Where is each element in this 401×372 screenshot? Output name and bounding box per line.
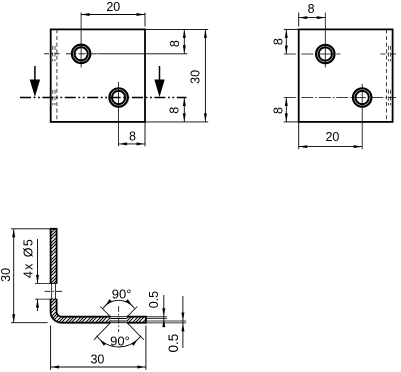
dim 20 bottom line [299, 146, 363, 148]
dim 30 left ext bottom [11, 322, 48, 324]
dim 0.5 upper ext a [146, 316, 167, 318]
svg-text:30: 30 [0, 268, 13, 282]
svg-text:8: 8 [129, 130, 136, 144]
hole gap mask horizontal leg [110, 316, 127, 324]
profile outline outer+bend [51, 299, 111, 323]
svg-text:30: 30 [90, 353, 104, 367]
vertical-leg hole wall right [55, 283, 57, 299]
dim 8 top-right arrow down [183, 45, 186, 54]
svg-text:0.5: 0.5 [147, 291, 161, 308]
dim 90 upper arrow right [126, 299, 133, 306]
csk ray lower-left [94, 323, 111, 340]
hole H4 inner circle [356, 91, 369, 104]
dim 30 bottom ext right [145, 326, 147, 370]
dim 0.5 lower ext a [146, 320, 186, 322]
dim 30 right arrow up [204, 29, 207, 38]
csk ray upper-right [127, 307, 137, 317]
hole H4 outer circle [353, 88, 371, 106]
dim 8 bottom ext right [144, 122, 146, 146]
horizontal-leg hole top surface line [110, 316, 127, 318]
left view hidden hole edge a [52, 46, 54, 61]
hole H2 inner circle [112, 91, 125, 104]
profile outline inner [57, 299, 111, 317]
dim 0.5 upper arrow up [162, 319, 165, 328]
section arrow right stem [159, 66, 161, 80]
left view hidden hole edge d [54, 90, 56, 105]
hole H1 vertical centerline [80, 13, 82, 68]
svg-text:90°: 90° [110, 334, 130, 349]
hole H3 inner circle [319, 47, 332, 60]
dim 90 lower arrow right [131, 339, 138, 346]
section arrow right head [154, 80, 164, 98]
hole H2 vertical centerline [118, 82, 120, 146]
dim 20 arrow left [81, 13, 90, 16]
vertical-leg hole top edge [35, 282, 57, 284]
dim 30 right line [204, 29, 206, 122]
dim 20 bottom arrow left [299, 145, 308, 148]
dim 8 top line [299, 17, 326, 19]
dim 0.5 lower ext b [146, 322, 186, 324]
dim 30 right ext bottom [145, 121, 208, 123]
hole H1 horizontal centerline [66, 53, 98, 55]
svg-text:90°: 90° [112, 286, 132, 301]
dim O5 arrow upper [36, 275, 39, 284]
dim 0.5 upper line [163, 295, 165, 327]
section arrow left stem [34, 66, 36, 80]
dim O5 line upper [37, 239, 39, 283]
dim 8 left-upper ext [284, 28, 299, 30]
dim 30 left arrow down [12, 314, 15, 323]
dim 8 left-lower line [285, 98, 287, 122]
dim 8 left-lower arrow up [285, 98, 288, 107]
svg-text:8: 8 [271, 38, 285, 45]
dim O5 line lower [37, 299, 39, 311]
horizontal-leg hole bottom surface line [110, 322, 127, 324]
dim 30 bottom ext left [50, 326, 52, 370]
vertical-leg hole wall left [51, 283, 53, 299]
dim 0.5 lower arrow up [181, 323, 184, 332]
left view bend line (hidden) [56, 29, 58, 122]
csk ray lower-right [127, 323, 144, 340]
dim 30 right arrow down [204, 113, 207, 122]
right view hidden hole centerline top [381, 53, 397, 55]
svg-text:30: 30 [189, 70, 203, 84]
dim 8 left-upper line [285, 29, 287, 54]
hole H1 outer circle [72, 45, 90, 63]
dim 90 lower arrow left [99, 339, 106, 346]
left view hidden hole edge c [52, 90, 54, 105]
dim 30 bottom line [51, 366, 146, 368]
left view hidden hole edge b [54, 46, 56, 61]
dim 30 left ext top [11, 228, 51, 230]
left view plate outline [51, 29, 145, 122]
dim 30 bottom arrow left [51, 366, 60, 369]
dim 20 bottom ext left [298, 122, 300, 149]
profile outline right end [127, 317, 146, 323]
left view hidden hole centerline [44, 53, 62, 55]
svg-text:20: 20 [106, 0, 120, 14]
dim 0.5 upper arrow down [162, 308, 165, 317]
svg-text:8: 8 [271, 107, 285, 114]
dim 8 top ext left [298, 13, 300, 27]
hole H1 inner circle [75, 47, 88, 60]
right view bend line (hidden) [385, 29, 387, 122]
dim 90 upper arrow left [105, 299, 112, 306]
dim 30 left line [13, 229, 15, 323]
dim 0.5 lower line [182, 296, 184, 348]
dim 90 lower arc [97, 336, 141, 347]
dim 8 bottom-right arrow up [183, 98, 186, 107]
hole H3 vertical centerline [324, 13, 326, 68]
right view hidden hole edge c [387, 90, 389, 105]
dim 8 bottom-right arrow down [183, 113, 186, 122]
dim 8 top-right line [183, 29, 185, 53]
dim 8 top-right arrow up [183, 29, 186, 38]
dim 8 bottom arrow left [119, 142, 128, 145]
dim 30 right ext top [145, 28, 208, 30]
dim O5 arrow lower [36, 299, 39, 308]
dim 20 arrow right [137, 13, 146, 16]
horizontal-leg hole csk top line [110, 318, 127, 320]
svg-text:8: 8 [168, 107, 182, 114]
dim 20 ext right [144, 13, 146, 27]
right view hidden hole edge b [390, 46, 392, 61]
horizontal-leg hole centerline [118, 306, 120, 332]
dim 8 top-right ext [98, 53, 187, 55]
section plane line A-A [20, 97, 187, 99]
hole H2 outer circle [109, 88, 127, 106]
dim 8 top arrow right [317, 16, 326, 19]
dim 8 top arrow left [299, 16, 308, 19]
svg-text:8: 8 [308, 2, 315, 16]
dim 8 left-lower ext [284, 121, 299, 123]
hole H4 horizontal centerline [284, 97, 396, 99]
section arrow left head [30, 80, 40, 98]
dim 30 left arrow up [12, 229, 15, 238]
dim 0.5 lower arrow down [181, 313, 184, 322]
dim 8 left-upper arrow down [285, 46, 288, 55]
hole H3 horizontal centerline [284, 53, 341, 55]
right view hidden hole edge a [387, 46, 389, 61]
dim 8 left-lower arrow down [285, 113, 288, 122]
dim 8 bottom-right line [183, 98, 185, 122]
hole H3 outer circle [316, 45, 334, 63]
csk ray upper-left [100, 307, 110, 317]
dim 8 bottom arrow right [137, 142, 146, 145]
right view plate outline [299, 29, 393, 122]
svg-text:8: 8 [168, 40, 182, 47]
dim 8 bottom line [119, 143, 145, 145]
dim 90 upper arc [103, 300, 134, 308]
svg-text:20: 20 [325, 130, 339, 144]
vertical-leg hole centerline [45, 290, 64, 292]
dim 20 bottom arrow right [354, 145, 363, 148]
svg-text:4x Ø5: 4x Ø5 [21, 238, 35, 278]
hole H4 vertical centerline [361, 84, 363, 149]
vertical-leg hole bottom edge [35, 298, 57, 300]
profile outline top part [51, 229, 57, 284]
horizontal-leg hole csk bottom line [110, 320, 127, 322]
dim 0.5 upper ext b [146, 318, 167, 320]
hole gap mask vertical leg [49, 284, 57, 299]
dim 8 left-upper arrow up [285, 29, 288, 38]
dim 30 bottom arrow right [137, 366, 146, 369]
svg-text:0.5: 0.5 [166, 334, 181, 353]
dim 20 line [81, 14, 145, 16]
right view hidden hole edge d [390, 90, 392, 105]
